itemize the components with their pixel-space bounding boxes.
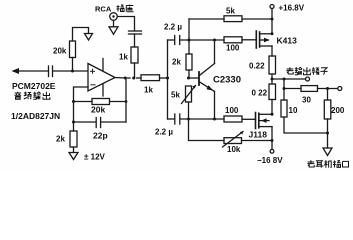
svg-text:1k: 1k [144, 86, 153, 95]
wire [118, 17, 135, 31]
wire [167, 40, 169, 119]
svg-text:K413: K413 [277, 36, 298, 46]
hanzi shu [33, 92, 40, 100]
wire lower gate row [168, 118, 175, 120]
resistor 20k input bias [70, 41, 76, 58]
wire [74, 101, 93, 103]
op-amp power pin stub bottom [102, 84, 104, 96]
wire output rail [272, 78, 306, 80]
wire [188, 19, 190, 54]
resistor 2k bias [186, 54, 192, 70]
wire [242, 140, 273, 142]
wire top feed [189, 18, 224, 20]
ground headphone [323, 148, 332, 156]
wire op-amp output [115, 77, 125, 80]
wire [271, 100, 273, 115]
wire source to 0.22 [271, 46, 273, 56]
wire [284, 117, 328, 133]
svg-text:5k: 5k [171, 91, 180, 100]
wire [242, 118, 256, 120]
terminal +16.8V [270, 5, 274, 9]
svg-text:100: 100 [226, 44, 240, 53]
wire [271, 127, 273, 150]
wire input from DAC [14, 70, 48, 72]
svg-text:30: 30 [302, 96, 311, 105]
hanzi cha [333, 161, 341, 168]
wire dashed scan artifact [128, 77, 131, 79]
hanzi qu [286, 67, 293, 74]
resistor 10k preset [224, 138, 242, 144]
node [326, 132, 329, 135]
svg-text:22p: 22p [93, 131, 108, 141]
node [213, 39, 216, 42]
svg-text:−16 8V: −16 8V [257, 156, 283, 165]
svg-text:20k: 20k [53, 47, 67, 56]
svg-text:0.22: 0.22 [249, 62, 265, 71]
wire [327, 89, 329, 101]
svg-text:1/2AD827JN: 1/2AD827JN [11, 111, 60, 121]
resistor 2k to ground [70, 131, 77, 147]
terminal output [306, 77, 310, 81]
node [326, 87, 329, 90]
wire [73, 28, 89, 42]
svg-text:± 12V: ± 12V [84, 153, 106, 162]
wire [284, 88, 301, 90]
node [187, 77, 190, 80]
op-amp power pin stub top [102, 59, 104, 71]
node [166, 77, 169, 80]
label audio output (音频输出) [15, 92, 50, 100]
ground [109, 27, 118, 34]
resistor 0.22 lower [269, 84, 276, 100]
label RCA socket (RCA插座) [95, 5, 134, 14]
node [283, 87, 286, 90]
terminal output 2 [338, 87, 342, 91]
hanzi chu [43, 92, 50, 100]
svg-text:2k: 2k [172, 58, 181, 67]
svg-text:5k: 5k [226, 7, 235, 16]
node [72, 121, 75, 124]
wire [72, 58, 74, 72]
node noninverting input [71, 70, 74, 73]
ground [85, 34, 93, 41]
svg-text:C2330: C2330 [213, 75, 241, 86]
node [283, 78, 286, 81]
svg-text:+16.8V: +16.8V [279, 4, 305, 13]
svg-text:PCM2702E: PCM2702E [12, 81, 56, 91]
hanzi ji [324, 160, 332, 168]
mosfet K413 [255, 31, 257, 48]
resistor 100 upper gate stopper [224, 37, 242, 43]
capacitor RCA coupling [129, 30, 142, 32]
wire [188, 70, 190, 78]
svg-text:2k: 2k [56, 135, 65, 144]
label to headphone jack (去耳机插口) [307, 160, 348, 168]
svg-text:10k: 10k [227, 145, 241, 154]
svg-text:100: 100 [225, 106, 239, 115]
hanzi qu [307, 160, 314, 167]
resistor 1k RCA series [131, 47, 138, 63]
resistor 30 [301, 86, 318, 92]
svg-text:J118: J118 [249, 130, 268, 140]
wire [271, 9, 273, 35]
wire [137, 77, 142, 79]
wire [271, 74, 273, 84]
wire [168, 39, 175, 41]
node [187, 118, 190, 121]
wire [74, 121, 96, 123]
wire [242, 39, 256, 41]
terminal -16.8V [270, 149, 274, 153]
hanzi chu [304, 67, 311, 75]
op-amp U1 1/2AD827JN [88, 64, 115, 92]
hanzi zuo [126, 5, 133, 12]
hanzi pin [24, 92, 31, 99]
svg-text:10: 10 [289, 106, 298, 115]
transistor Q1 C2330 [198, 72, 200, 85]
wire [189, 119, 225, 141]
svg-text:200: 200 [331, 106, 345, 115]
capacitor 22p [95, 118, 97, 128]
label to output terminals (去输出端子) [286, 67, 327, 75]
node [132, 77, 135, 80]
capacitor 2.2u upper [174, 36, 176, 45]
hanzi zi [320, 68, 327, 75]
hanzi cha [117, 5, 125, 12]
hanzi er [316, 161, 324, 168]
input arrow to PCM2702E [12, 68, 20, 74]
wire [283, 79, 285, 100]
resistor 20k feedback [92, 99, 110, 105]
node output rail [271, 78, 274, 81]
wire base [189, 77, 199, 79]
svg-text:20k: 20k [91, 105, 105, 115]
hanzi duan [312, 67, 320, 75]
wire [113, 21, 115, 27]
resistor 200 [324, 100, 331, 119]
resistor 1k output series [141, 75, 160, 81]
wire [188, 102, 190, 119]
wire [125, 78, 127, 122]
node [213, 118, 216, 121]
wire [110, 101, 127, 103]
wire [327, 119, 329, 148]
wire [318, 88, 338, 90]
resistor 100 lower gate stopper [224, 116, 242, 122]
node [271, 18, 274, 21]
capacitor input coupling [48, 66, 50, 77]
node [125, 100, 128, 103]
wire [134, 34, 136, 47]
wire emitter [214, 92, 216, 120]
svg-text:0 22: 0 22 [252, 89, 268, 98]
RCA jack [110, 13, 118, 21]
wire [160, 77, 169, 79]
wire inverting input [74, 87, 89, 131]
node [72, 100, 75, 103]
node drain K413 [271, 32, 274, 35]
wire collector [214, 40, 216, 64]
resistor 5k feed [224, 16, 242, 22]
node [188, 39, 191, 42]
svg-text:2.2 µ: 2.2 µ [155, 128, 173, 137]
node [271, 113, 274, 116]
node [271, 139, 274, 142]
node [124, 77, 127, 80]
resistor 0.22 upper [269, 56, 276, 74]
wire [134, 63, 136, 77]
wire [73, 147, 75, 153]
wire [180, 39, 224, 41]
svg-text:RCA: RCA [95, 5, 112, 14]
mosfet J118 [255, 113, 257, 129]
svg-text:2.2 µ: 2.2 µ [164, 23, 182, 32]
hanzi shu [295, 67, 302, 75]
wire [180, 118, 224, 120]
ground [69, 153, 78, 160]
wire [101, 121, 126, 123]
wire [242, 18, 272, 20]
svg-text:1k: 1k [119, 53, 128, 62]
hanzi kou [343, 161, 349, 167]
capacitor 2.2u lower [174, 114, 176, 124]
resistor 10 [281, 100, 287, 117]
hanzi yin [15, 92, 22, 100]
resistor 5k preset [186, 86, 192, 102]
